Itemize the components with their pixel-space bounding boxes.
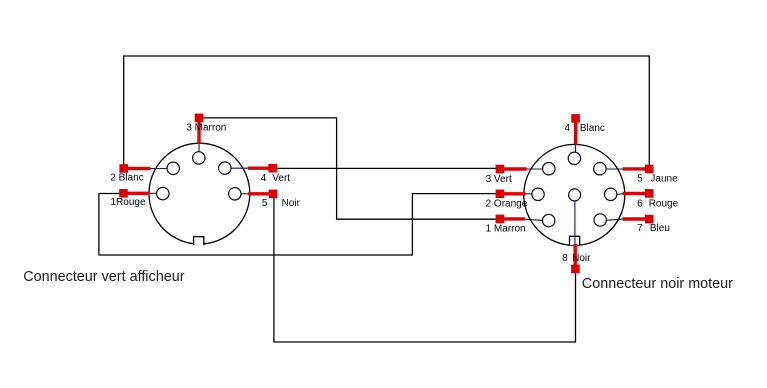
link pad8 to center pin8 [574, 201, 576, 244]
pad pin2 Orange [496, 190, 505, 199]
pin 4 upper-right [219, 162, 231, 174]
label pin8 Noir right [562, 253, 591, 264]
pad pin5 Noir [269, 190, 278, 199]
pin 3 upper-left [543, 163, 555, 175]
pin 2 upper-left [167, 162, 179, 174]
label pin5 Noir left [262, 198, 301, 209]
pad pin6 Rouge [645, 189, 654, 198]
link pad6 to pin6 [617, 193, 623, 196]
pad pin5 Jaune [645, 165, 654, 174]
link pad7 to pin7 [607, 219, 624, 220]
link pad3 to pin3 [198, 144, 200, 152]
pin 8 center [569, 189, 581, 201]
stub pin6 Rouge [623, 192, 647, 195]
label pin5 Jaune right [637, 173, 678, 184]
svg-text:Noir: Noir [282, 198, 301, 209]
svg-text:2 Orange: 2 Orange [486, 199, 528, 210]
svg-text:3 Vert: 3 Vert [486, 174, 512, 185]
stub pin3 Marron [197, 121, 200, 144]
keyway notch left connector [194, 237, 204, 246]
svg-text:6: 6 [637, 199, 643, 210]
svg-text:5: 5 [637, 173, 643, 184]
svg-text:Connecteur noir moteur: Connecteur noir moteur [582, 276, 733, 292]
stub pin4 Blanc [574, 122, 577, 145]
connector body right (DIN-8 female) [524, 144, 625, 245]
label pin7 Bleu right [637, 223, 670, 234]
pin 5 upper-right [594, 163, 606, 175]
svg-text:1Rouge: 1Rouge [111, 197, 146, 208]
label pin4 Vert left [261, 173, 291, 184]
wire Noir(left pin5) to Noir(right pin8) bottom route [274, 198, 576, 343]
label pin2 Blanc left [110, 173, 143, 184]
svg-text:Blanc: Blanc [580, 123, 605, 134]
pin 5 right [229, 188, 241, 200]
label pin4 Blanc right [565, 123, 605, 134]
wire Blanc(left pin2) to Jaune(right pin5) top route [124, 56, 650, 165]
stub pin7 Bleu [623, 217, 647, 220]
pin 2 mid-left [532, 188, 544, 200]
pad pin8 Noir [571, 265, 580, 274]
caption right connector [582, 276, 733, 292]
wire Rouge(left pin1) to Orange(right pin2) [99, 194, 496, 256]
stub pin3 Vert [503, 167, 527, 170]
label pin3 Vert right [486, 174, 512, 185]
stub pin4 Vert [248, 166, 270, 169]
red stub wires right connector [503, 122, 646, 266]
link pad4 to pin4 [231, 167, 248, 169]
label pin1 Marron right [486, 223, 526, 234]
svg-text:1 Marron: 1 Marron [486, 223, 526, 234]
wire Marron(left pin3) to Marron(right pin1) [203, 118, 496, 219]
pad pin1 Marron [496, 215, 505, 224]
link pad2 to pin2 [150, 168, 167, 170]
red stub wires left connector [127, 121, 270, 194]
link pad5 to pin5 [606, 168, 623, 170]
pin 3 top [193, 152, 205, 164]
pin 1 lower-left [543, 214, 555, 226]
pin 7 lower-right [594, 214, 606, 226]
svg-text:Bleu: Bleu [650, 223, 670, 234]
stub pin2 Blanc [127, 167, 151, 170]
stub pin5 Jaune [623, 167, 647, 170]
svg-text:4: 4 [565, 123, 571, 134]
link pad1 to pin1 [149, 192, 156, 194]
pad pin7 Bleu [645, 215, 654, 224]
pin-link lines left connector (inside body) [149, 144, 248, 194]
svg-text:4: 4 [261, 173, 267, 184]
caption left connector [23, 269, 185, 285]
svg-text:3 Marron: 3 Marron [186, 123, 226, 134]
pins right connector (8 sockets) [532, 152, 617, 227]
svg-text:5: 5 [262, 198, 268, 209]
pin 1 left [157, 187, 169, 199]
svg-text:Jaune: Jaune [650, 173, 678, 184]
stub pin1 Rouge [127, 192, 150, 195]
stub pin2 Orange [503, 192, 526, 195]
connector body left (DIN-5 female) [149, 143, 250, 244]
pad pin4 Blanc [571, 114, 580, 123]
svg-text:Noir: Noir [572, 253, 591, 264]
pin 6 mid-right [605, 188, 617, 200]
link pad2 to pin2 [525, 193, 531, 195]
keyway notch right connector [570, 236, 580, 245]
stub pin1 Marron [503, 217, 525, 220]
pad pin1 Rouge [119, 189, 128, 198]
label pin2 Orange right [486, 199, 528, 210]
link pad5 to pin5 [241, 193, 249, 195]
pad pin4 Vert [268, 164, 277, 173]
link pad1 to pin1 [525, 219, 543, 220]
pin 4 top [568, 152, 580, 164]
solder pads left connector (red squares) [119, 114, 277, 199]
svg-text:Rouge: Rouge [649, 199, 679, 210]
svg-text:7: 7 [637, 223, 643, 234]
pad pin3 Vert [496, 165, 505, 174]
label pin6 Rouge right [637, 199, 679, 210]
svg-text:2 Blanc: 2 Blanc [110, 173, 143, 184]
label pin1 Rouge left [111, 197, 146, 208]
svg-text:Vert: Vert [272, 173, 290, 184]
label pin3 Marron left [186, 123, 226, 134]
svg-text:Connecteur vert afficheur: Connecteur vert afficheur [23, 269, 185, 285]
pad pin2 Blanc [119, 164, 128, 173]
pin-link lines right connector (inside body) [525, 144, 624, 244]
solder pads right connector (red squares) [496, 114, 654, 273]
stub pin5 Noir [248, 192, 270, 195]
pad pin3 Marron [195, 114, 204, 123]
link pad3 to pin3 [526, 168, 542, 170]
svg-text:8: 8 [562, 253, 568, 264]
wire Vert(left pin4) to Vert(right pin3) [277, 167, 496, 169]
stub pin8 Noir [574, 244, 577, 266]
link pad4 to pin4 [575, 144, 577, 152]
pins left connector (5 sockets) [157, 152, 241, 200]
